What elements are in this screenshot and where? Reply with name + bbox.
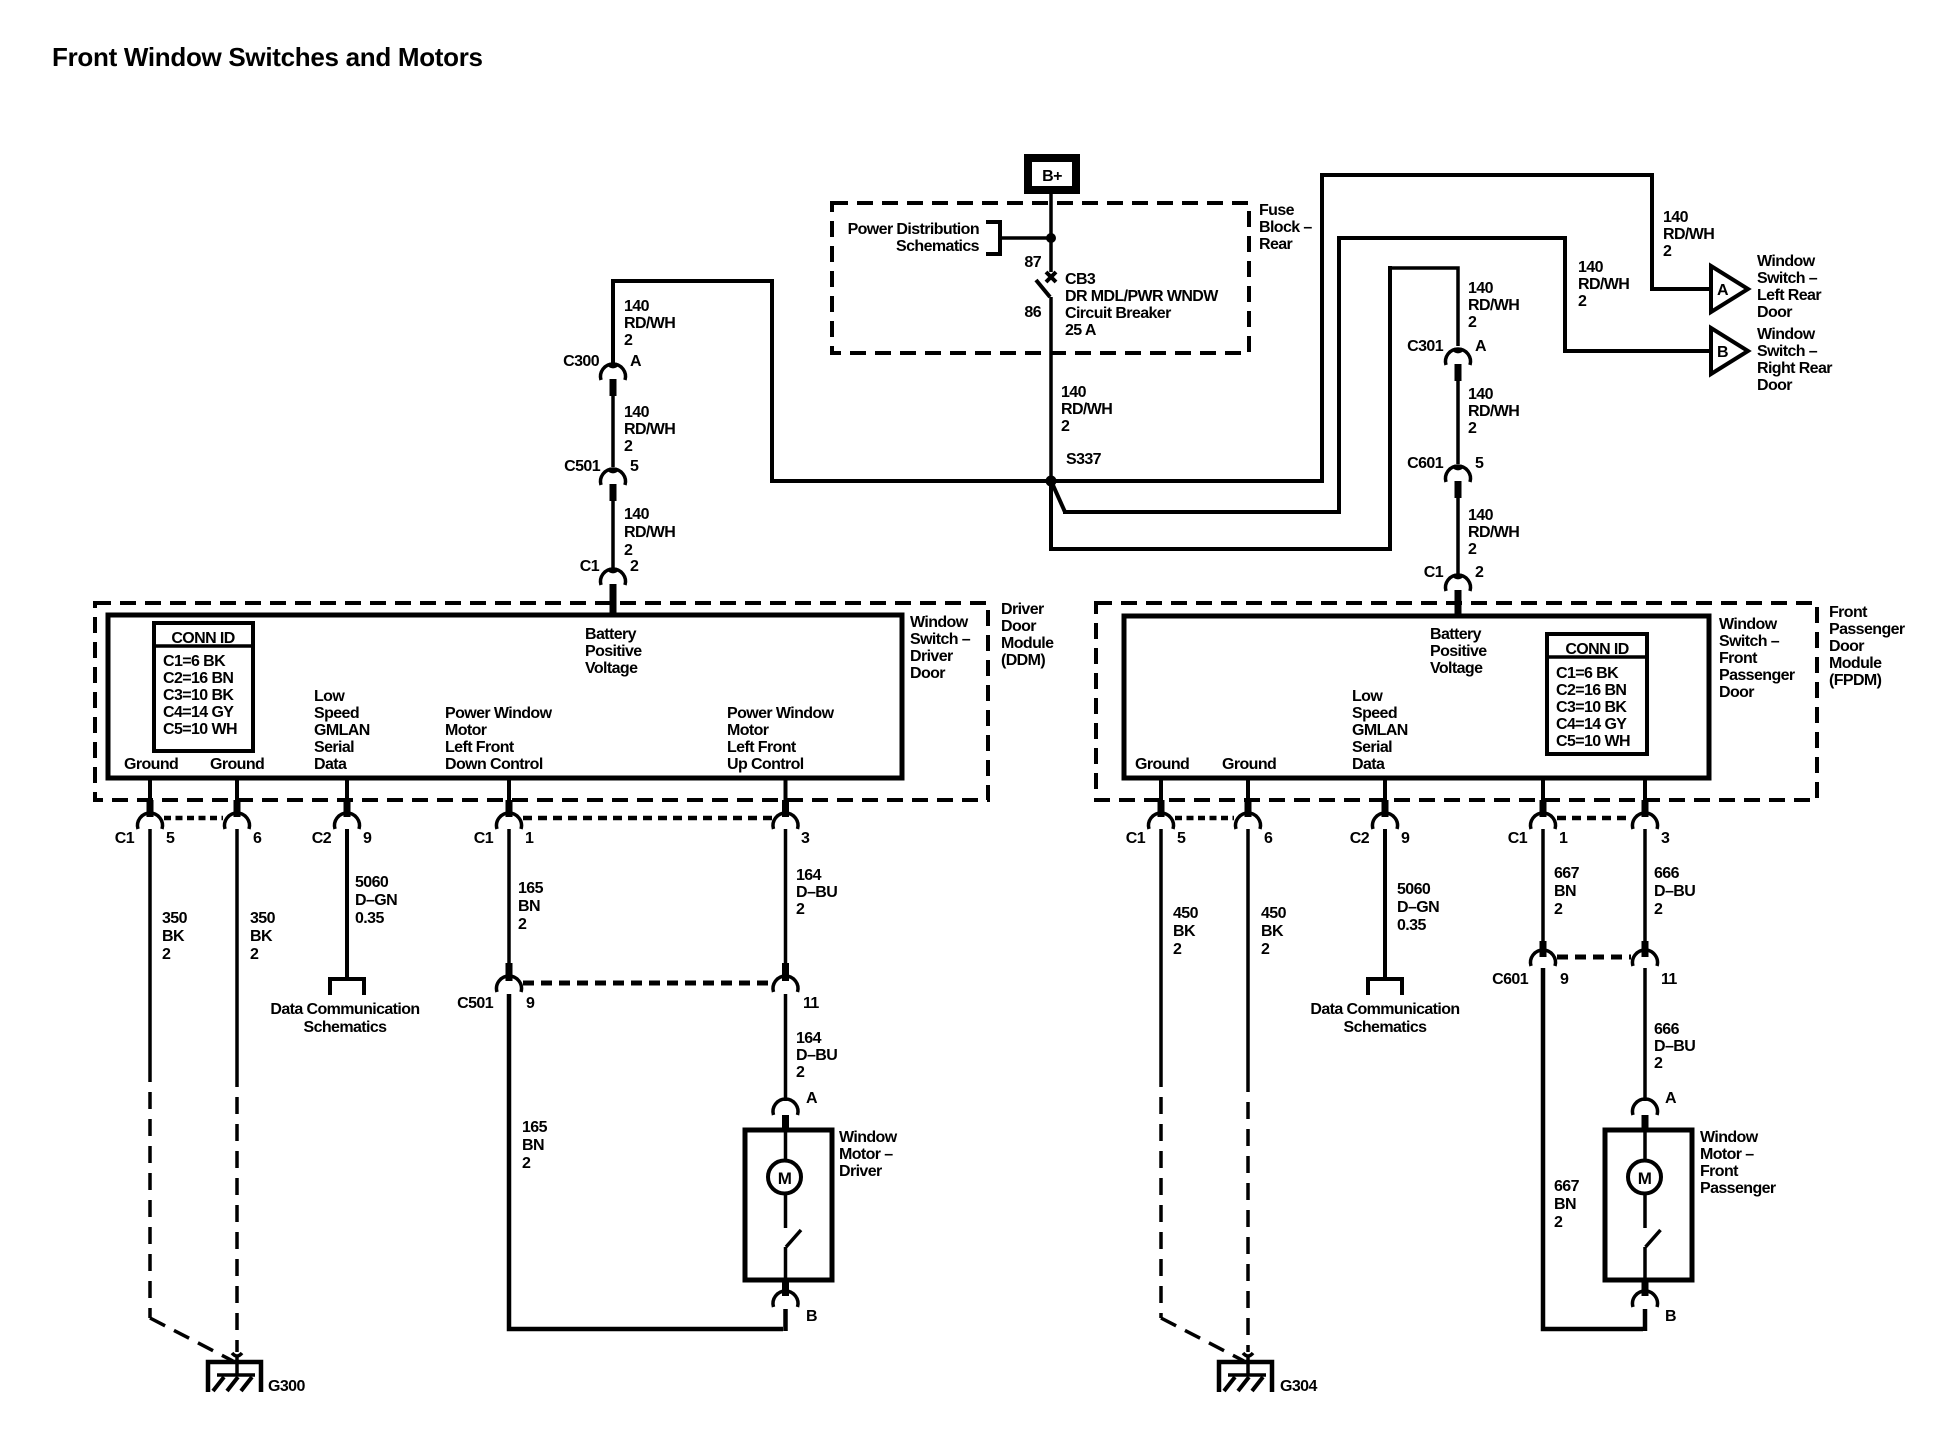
- DDM pin stub ground C1-5: [148, 778, 152, 801]
- svg-text:Schematics: Schematics: [304, 1019, 388, 1036]
- svg-text:450: 450: [1261, 905, 1287, 922]
- svg-text:B: B: [1717, 344, 1728, 361]
- svg-text:Schematics: Schematics: [896, 238, 980, 255]
- connector A window motor driver: [773, 1099, 798, 1115]
- wire 11 to motor A: [784, 994, 788, 1101]
- svg-text:G300: G300: [268, 1378, 305, 1395]
- svg-text:2: 2: [522, 1155, 531, 1172]
- wire 165 BN to motor B: [509, 994, 783, 1329]
- svg-text:C601: C601: [1492, 971, 1529, 988]
- svg-text:Window: Window: [1757, 326, 1816, 343]
- svg-text:Motor: Motor: [727, 722, 769, 739]
- svg-text:D–BU: D–BU: [1654, 883, 1695, 900]
- svg-text:A: A: [806, 1090, 818, 1107]
- svg-text:2: 2: [1654, 1055, 1663, 1072]
- connector C501-9: [506, 963, 513, 981]
- svg-text:11: 11: [803, 995, 819, 1012]
- svg-text:6: 6: [253, 830, 262, 847]
- svg-text:2: 2: [796, 901, 805, 918]
- B+ battery terminal: [1028, 158, 1076, 190]
- svg-text:Block –: Block –: [1259, 219, 1312, 236]
- svg-text:C3=10 BK: C3=10 BK: [163, 687, 234, 704]
- ground G304: [1219, 1362, 1272, 1392]
- svg-text:5060: 5060: [1397, 881, 1431, 898]
- svg-text:Passenger: Passenger: [1700, 1180, 1776, 1197]
- svg-text:BN: BN: [1554, 1196, 1576, 1213]
- svg-text:Power Window: Power Window: [445, 705, 553, 722]
- svg-text:D–GN: D–GN: [355, 892, 397, 909]
- svg-text:C501: C501: [457, 995, 494, 1012]
- connector link C1 1-3: [1557, 816, 1631, 821]
- wire 11 to motor A: [1643, 968, 1647, 1101]
- svg-text:140: 140: [624, 404, 650, 421]
- svg-text:140: 140: [1468, 386, 1494, 403]
- svg-text:BN: BN: [518, 898, 540, 915]
- svg-text:Ground: Ground: [1135, 756, 1189, 773]
- wire S337 down run to FPDM column: [1051, 266, 1390, 549]
- svg-text:2: 2: [630, 558, 639, 575]
- svg-text:2: 2: [1261, 941, 1270, 958]
- wire C301 to C601: [1456, 381, 1460, 464]
- svg-text:5: 5: [1177, 830, 1186, 847]
- svg-text:Door: Door: [1719, 684, 1754, 701]
- svg-text:B: B: [806, 1308, 817, 1325]
- wire 667 BN to motor B: [1543, 968, 1643, 1329]
- svg-text:Down Control: Down Control: [445, 756, 543, 773]
- svg-text:D–GN: D–GN: [1397, 899, 1439, 916]
- svg-text:A: A: [1475, 338, 1487, 355]
- svg-text:A: A: [630, 353, 642, 370]
- svg-text:165: 165: [522, 1119, 548, 1136]
- svg-text:350: 350: [162, 910, 188, 927]
- window motor front passenger box: [1605, 1130, 1692, 1280]
- svg-text:BK: BK: [1173, 923, 1196, 940]
- svg-text:BN: BN: [1554, 883, 1576, 900]
- svg-text:Data Communication: Data Communication: [270, 1001, 419, 1018]
- svg-text:Switch –: Switch –: [1757, 270, 1818, 287]
- svg-text:0.35: 0.35: [355, 910, 384, 927]
- svg-text:2: 2: [1468, 541, 1477, 558]
- svg-text:B+: B+: [1042, 168, 1062, 185]
- svg-text:CB3: CB3: [1065, 271, 1096, 288]
- svg-text:RD/WH: RD/WH: [1061, 401, 1112, 418]
- svg-text:2: 2: [162, 946, 171, 963]
- svg-text:Driver: Driver: [910, 648, 953, 665]
- svg-text:140: 140: [1663, 209, 1689, 226]
- wire S337 diagonal to right rear run: [1052, 483, 1065, 512]
- svg-text:9: 9: [363, 830, 372, 847]
- DDM CONN ID table: [154, 623, 253, 751]
- svg-text:RD/WH: RD/WH: [1468, 524, 1519, 541]
- svg-text:Battery: Battery: [585, 626, 637, 643]
- svg-text:A: A: [1665, 1090, 1677, 1107]
- FPDM window switch module box: [1124, 616, 1709, 778]
- svg-text:9: 9: [526, 995, 535, 1012]
- connector C300: [608, 364, 618, 367]
- svg-text:450: 450: [1173, 905, 1199, 922]
- svg-text:Door: Door: [910, 665, 945, 682]
- wire C2-9 serial data: [345, 829, 349, 978]
- svg-text:165: 165: [518, 880, 544, 897]
- svg-text:5: 5: [1475, 455, 1484, 472]
- svg-text:C4=14 GY: C4=14 GY: [1556, 716, 1627, 733]
- connector link C1 5-6: [164, 816, 223, 821]
- svg-text:RD/WH: RD/WH: [1663, 226, 1714, 243]
- svg-text:BK: BK: [250, 928, 273, 945]
- FPDM pin stub ground C1-5: [1159, 778, 1163, 801]
- svg-text:Positive: Positive: [1430, 643, 1487, 660]
- svg-text:C1: C1: [1424, 564, 1444, 581]
- wire B down: [783, 1309, 788, 1331]
- connector B window motor front passenger: [1642, 1281, 1649, 1296]
- svg-text:M: M: [1638, 1169, 1652, 1188]
- svg-text:1: 1: [525, 830, 534, 847]
- svg-text:2: 2: [1578, 293, 1587, 310]
- svg-text:D–BU: D–BU: [1654, 1038, 1695, 1055]
- wire C501 to C1: [611, 501, 615, 568]
- svg-text:Front: Front: [1700, 1163, 1739, 1180]
- svg-text:Left Front: Left Front: [727, 739, 797, 756]
- connector link C1 1-3: [523, 816, 772, 821]
- DDM window switch module box: [108, 615, 902, 778]
- svg-text:Power Window: Power Window: [727, 705, 835, 722]
- window switch left rear door terminal A triangle: [1711, 266, 1748, 312]
- splice S337: [1046, 476, 1057, 487]
- wire ground C1-5 to G304: [1159, 829, 1163, 1070]
- connector B window motor driver: [782, 1281, 789, 1296]
- svg-text:164: 164: [796, 867, 822, 884]
- wire ground 6 to G304: [1246, 829, 1250, 1075]
- DDM pin stub 3: [784, 778, 788, 801]
- svg-text:(DDM): (DDM): [1001, 652, 1045, 669]
- svg-text:Circuit Breaker: Circuit Breaker: [1065, 305, 1171, 322]
- connector link 9-11: [1557, 955, 1631, 960]
- svg-text:Door: Door: [1829, 638, 1864, 655]
- svg-text:Switch –: Switch –: [1757, 343, 1818, 360]
- window motor driver box: [745, 1130, 832, 1280]
- svg-text:2: 2: [624, 332, 633, 349]
- svg-text:Voltage: Voltage: [585, 660, 638, 677]
- connector 11: [782, 963, 789, 981]
- svg-text:Rear: Rear: [1259, 236, 1293, 253]
- svg-text:Ground: Ground: [1222, 756, 1276, 773]
- svg-text:CONN ID: CONN ID: [1565, 641, 1628, 658]
- svg-text:2: 2: [1468, 420, 1477, 437]
- svg-text:Voltage: Voltage: [1430, 660, 1483, 677]
- svg-text:GMLAN: GMLAN: [1352, 722, 1408, 739]
- svg-text:Battery: Battery: [1430, 626, 1482, 643]
- svg-text:Driver: Driver: [839, 1163, 882, 1180]
- connector C501: [608, 469, 618, 472]
- svg-text:RD/WH: RD/WH: [1468, 297, 1519, 314]
- svg-text:C501: C501: [564, 458, 601, 475]
- svg-text:Power Distribution: Power Distribution: [848, 221, 979, 238]
- svg-text:RD/WH: RD/WH: [624, 315, 675, 332]
- svg-text:S337: S337: [1066, 451, 1102, 468]
- bracket: [986, 222, 1000, 254]
- svg-text:C1=6 BK: C1=6 BK: [163, 653, 226, 670]
- svg-text:5: 5: [166, 830, 175, 847]
- svg-text:D–BU: D–BU: [796, 884, 837, 901]
- FPDM pin stub C2-9: [1383, 778, 1387, 801]
- svg-text:C1: C1: [1126, 830, 1146, 847]
- wire S337 right run to window switch A: [1053, 173, 1322, 481]
- svg-text:Passenger: Passenger: [1719, 667, 1795, 684]
- svg-text:C1: C1: [115, 830, 135, 847]
- data communication schematics bracket: [1368, 979, 1402, 995]
- svg-text:C5=10 WH: C5=10 WH: [1556, 733, 1630, 750]
- wire breaker to S337: [1049, 297, 1053, 477]
- svg-text:RD/WH: RD/WH: [624, 421, 675, 438]
- svg-text:3: 3: [1661, 830, 1670, 847]
- svg-text:2: 2: [1554, 901, 1563, 918]
- FPDM pin stub C1-1: [1541, 778, 1545, 801]
- svg-text:Serial: Serial: [314, 739, 354, 756]
- svg-text:C5=10 WH: C5=10 WH: [163, 721, 237, 738]
- svg-text:Data: Data: [314, 756, 347, 773]
- svg-text:Module: Module: [1001, 635, 1054, 652]
- svg-text:87: 87: [1024, 254, 1041, 271]
- svg-text:Window: Window: [1719, 616, 1778, 633]
- wire run to window switch B: [1063, 236, 1339, 512]
- svg-text:RD/WH: RD/WH: [1578, 276, 1629, 293]
- svg-text:Low: Low: [1352, 688, 1383, 705]
- svg-text:D–BU: D–BU: [796, 1047, 837, 1064]
- svg-text:C3=10 BK: C3=10 BK: [1556, 699, 1627, 716]
- motor internal switch: [784, 1194, 788, 1228]
- DDM pin stub ground 6: [235, 778, 239, 801]
- svg-text:Window: Window: [910, 614, 969, 631]
- FPDM window switch module dashed box: [1096, 603, 1817, 800]
- connector A window motor front passenger: [1633, 1099, 1658, 1115]
- svg-text:DR MDL/PWR WNDW: DR MDL/PWR WNDW: [1065, 288, 1219, 305]
- svg-text:Data Communication: Data Communication: [1310, 1001, 1459, 1018]
- svg-text:Front Window Switches and Moto: Front Window Switches and Motors: [52, 42, 483, 72]
- svg-text:RD/WH: RD/WH: [1468, 403, 1519, 420]
- svg-text:Door: Door: [1757, 377, 1792, 394]
- svg-text:BK: BK: [162, 928, 185, 945]
- svg-text:Window: Window: [1700, 1129, 1759, 1146]
- svg-text:2: 2: [1173, 941, 1182, 958]
- svg-text:140: 140: [1468, 280, 1494, 297]
- connector C1 DDM: [608, 569, 618, 572]
- svg-text:140: 140: [1578, 259, 1604, 276]
- svg-text:2: 2: [1468, 314, 1477, 331]
- svg-text:C2=16 BN: C2=16 BN: [1556, 682, 1626, 699]
- svg-text:2: 2: [624, 438, 633, 455]
- svg-text:CONN ID: CONN ID: [171, 630, 234, 647]
- svg-text:666: 666: [1654, 865, 1680, 882]
- svg-text:2: 2: [250, 946, 259, 963]
- FPDM pin stub 3: [1643, 778, 1647, 801]
- svg-text:Left Rear: Left Rear: [1757, 287, 1821, 304]
- svg-text:Left Front: Left Front: [445, 739, 515, 756]
- svg-text:6: 6: [1264, 830, 1273, 847]
- svg-text:164: 164: [796, 1030, 822, 1047]
- svg-text:Serial: Serial: [1352, 739, 1392, 756]
- ground G300 entry: [232, 1353, 242, 1356]
- svg-text:RD/WH: RD/WH: [624, 524, 675, 541]
- svg-text:Low: Low: [314, 688, 345, 705]
- data communication schematics bracket: [330, 979, 364, 995]
- svg-text:140: 140: [1061, 384, 1087, 401]
- svg-text:GMLAN: GMLAN: [314, 722, 370, 739]
- connector C301: [1453, 349, 1463, 352]
- svg-text:Door: Door: [1757, 304, 1792, 321]
- svg-text:0.35: 0.35: [1397, 917, 1426, 934]
- svg-text:C1: C1: [474, 830, 494, 847]
- svg-text:2: 2: [1061, 418, 1070, 435]
- connector C601-9: [1540, 941, 1547, 957]
- svg-text:Fuse: Fuse: [1259, 202, 1295, 219]
- svg-text:667: 667: [1554, 865, 1580, 882]
- motor internal switch: [1643, 1194, 1647, 1228]
- wire B+ down to breaker: [1049, 194, 1053, 272]
- svg-text:Right Rear: Right Rear: [1757, 360, 1832, 377]
- svg-text:Switch –: Switch –: [1719, 633, 1780, 650]
- svg-text:86: 86: [1024, 304, 1041, 321]
- wire B down: [1643, 1309, 1648, 1331]
- svg-text:2: 2: [1475, 564, 1484, 581]
- svg-text:Positive: Positive: [585, 643, 642, 660]
- svg-text:667: 667: [1554, 1178, 1580, 1195]
- svg-text:A: A: [1717, 282, 1729, 299]
- svg-text:C2: C2: [312, 830, 332, 847]
- FPDM pin stub ground 6: [1246, 778, 1250, 801]
- svg-text:Front: Front: [1719, 650, 1758, 667]
- svg-text:3: 3: [801, 830, 810, 847]
- DDM pin stub C1-1: [507, 778, 511, 801]
- svg-text:Speed: Speed: [1352, 705, 1397, 722]
- svg-text:Speed: Speed: [314, 705, 359, 722]
- svg-text:25 A: 25 A: [1065, 322, 1097, 339]
- svg-text:Schematics: Schematics: [1344, 1019, 1428, 1036]
- wire S337 left run: [772, 279, 1049, 481]
- svg-text:C1: C1: [1508, 830, 1528, 847]
- wire 3 to connector 11: [1643, 829, 1647, 941]
- svg-text:BK: BK: [1261, 923, 1284, 940]
- svg-text:350: 350: [250, 910, 276, 927]
- svg-text:2: 2: [518, 916, 527, 933]
- FPDM CONN ID table: [1547, 634, 1647, 754]
- svg-text:140: 140: [624, 298, 650, 315]
- connector 11: [1642, 941, 1649, 957]
- svg-text:Motor: Motor: [445, 722, 487, 739]
- svg-text:9: 9: [1401, 830, 1410, 847]
- svg-text:Front: Front: [1829, 604, 1868, 621]
- wire C601 to C1: [1456, 498, 1460, 574]
- svg-text:9: 9: [1560, 971, 1569, 988]
- svg-text:2: 2: [1554, 1214, 1563, 1231]
- ground G304 entry: [1243, 1353, 1253, 1356]
- svg-text:1: 1: [1559, 830, 1568, 847]
- DDM window switch module dashed box: [95, 603, 988, 800]
- svg-text:B: B: [1665, 1308, 1676, 1325]
- svg-text:666: 666: [1654, 1021, 1680, 1038]
- svg-text:C300: C300: [563, 353, 600, 370]
- svg-text:C2=16 BN: C2=16 BN: [163, 670, 233, 687]
- svg-text:Data: Data: [1352, 756, 1385, 773]
- svg-text:G304: G304: [1280, 1378, 1317, 1395]
- svg-text:Window: Window: [839, 1129, 898, 1146]
- svg-text:5: 5: [630, 458, 639, 475]
- connector C1 FPDM: [1453, 575, 1463, 578]
- svg-text:Driver: Driver: [1001, 601, 1044, 618]
- wire ground C1-5 to G300: [148, 829, 152, 1065]
- wire ground 6 to G300: [235, 829, 239, 1070]
- svg-text:C301: C301: [1407, 338, 1444, 355]
- svg-text:M: M: [778, 1169, 792, 1188]
- svg-text:C601: C601: [1407, 455, 1444, 472]
- svg-text:2: 2: [796, 1064, 805, 1081]
- ground G300: [208, 1362, 261, 1392]
- DDM pin stub C2-9: [345, 778, 349, 801]
- svg-text:Switch –: Switch –: [910, 631, 971, 648]
- wire 3 up control: [784, 829, 788, 963]
- svg-text:Motor –: Motor –: [839, 1146, 893, 1163]
- svg-text:Window: Window: [1757, 253, 1816, 270]
- node junction at 87 feed: [1046, 233, 1056, 243]
- svg-text:Door: Door: [1001, 618, 1036, 635]
- svg-text:11: 11: [1661, 971, 1677, 988]
- wire top run to C300 drop: [613, 281, 774, 363]
- svg-text:2: 2: [1654, 901, 1663, 918]
- svg-text:140: 140: [624, 506, 650, 523]
- svg-text:C1: C1: [580, 558, 600, 575]
- fuse block dashed box: [832, 203, 1249, 353]
- circuit breaker CB3 blade: [1036, 280, 1050, 297]
- svg-text:Motor –: Motor –: [1700, 1146, 1754, 1163]
- motor M circle: [784, 1131, 788, 1161]
- svg-text:(FPDM): (FPDM): [1829, 672, 1882, 689]
- svg-text:BN: BN: [522, 1137, 544, 1154]
- wire C1-1 to C601: [1541, 829, 1545, 941]
- wire bracket to B+ feed: [1000, 236, 1047, 240]
- svg-text:2: 2: [1663, 243, 1672, 260]
- svg-text:140: 140: [1468, 507, 1494, 524]
- svg-text:Module: Module: [1829, 655, 1882, 672]
- wire C1-1 down control: [507, 829, 511, 963]
- connector link 9-11: [523, 981, 771, 986]
- svg-text:Ground: Ground: [124, 756, 178, 773]
- connector C601: [1453, 466, 1463, 469]
- circuit breaker CB3 contact X: [1046, 272, 1056, 282]
- window switch right rear door terminal B triangle: [1711, 328, 1748, 374]
- svg-text:C1=6 BK: C1=6 BK: [1556, 665, 1619, 682]
- svg-text:C4=14 GY: C4=14 GY: [163, 704, 234, 721]
- svg-text:Ground: Ground: [210, 756, 264, 773]
- svg-text:Up Control: Up Control: [727, 756, 804, 773]
- motor M circle: [1643, 1131, 1647, 1161]
- svg-text:2: 2: [624, 542, 633, 559]
- wire C2-9 serial data: [1383, 829, 1387, 978]
- connector link C1 5-6: [1175, 816, 1234, 821]
- svg-text:Passenger: Passenger: [1829, 621, 1905, 638]
- svg-text:C2: C2: [1350, 830, 1370, 847]
- svg-text:5060: 5060: [355, 874, 389, 891]
- wire C300 to C501: [611, 396, 615, 467]
